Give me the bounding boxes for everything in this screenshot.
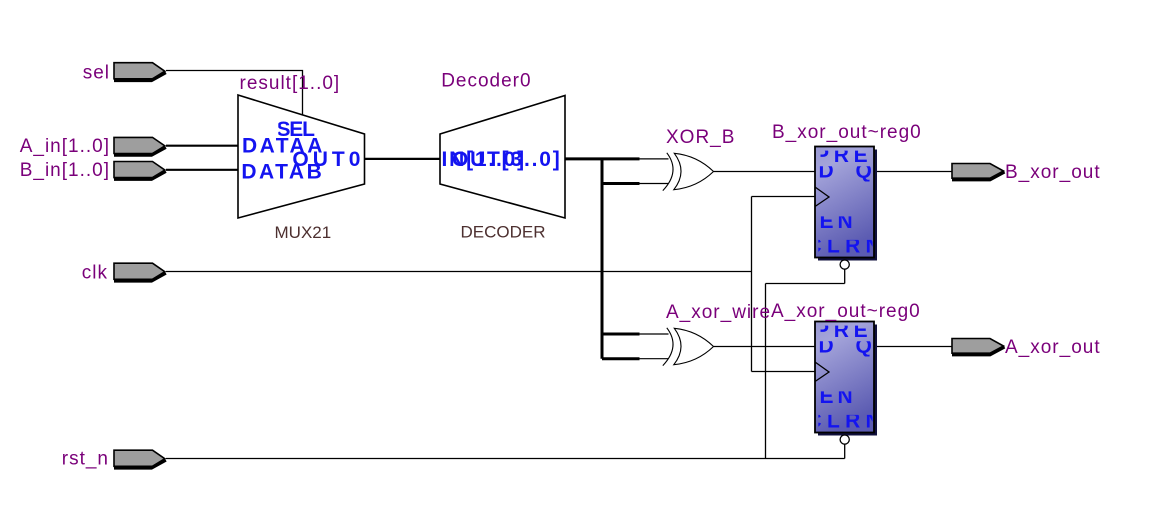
svg-text:sel: sel <box>83 63 110 84</box>
svg-text:OUT[3..0]: OUT[3..0] <box>452 148 562 171</box>
svg-text:clk: clk <box>82 263 108 284</box>
svg-text:XOR_B: XOR_B <box>666 127 735 148</box>
svg-text:MUX21: MUX21 <box>275 223 332 242</box>
svg-text:A_xor_wire: A_xor_wire <box>666 302 771 323</box>
svg-text:A_xor_out: A_xor_out <box>1005 337 1101 358</box>
svg-text:DECODER: DECODER <box>461 223 546 242</box>
svg-text:A_in[1..0]: A_in[1..0] <box>20 136 110 157</box>
svg-text:B_in[1..0]: B_in[1..0] <box>20 160 110 181</box>
svg-text:B_xor_out: B_xor_out <box>1005 162 1101 183</box>
svg-text:B_xor_out~reg0: B_xor_out~reg0 <box>772 122 922 143</box>
svg-text:Decoder0: Decoder0 <box>441 71 531 92</box>
svg-text:A_xor_out~reg0: A_xor_out~reg0 <box>771 301 921 322</box>
svg-text:DATAB: DATAB <box>241 161 324 184</box>
svg-text:result[1..0]: result[1..0] <box>240 73 341 94</box>
svg-text:rst_n: rst_n <box>62 449 109 470</box>
